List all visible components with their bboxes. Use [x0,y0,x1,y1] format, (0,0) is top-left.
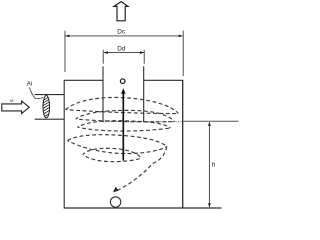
h bottom arrowhead [208,203,211,207]
vortex spiral loop 2 bottom arc [76,119,175,122]
vessel top edge right part [144,79,184,81]
Dd left extension line [102,50,104,64]
svg-text:h: h [212,162,216,169]
Dc right extension line [182,31,184,76]
Ai leader line [30,88,44,99]
svg-text:Dd: Dd [117,46,126,53]
vessel bottom edge with right extension [64,207,222,209]
Dc right arrowhead [179,35,183,38]
Dc left extension line [64,31,66,72]
svg-text:Ai: Ai [27,82,32,88]
inlet duct top wall [35,94,64,96]
vortex spiral loop 3 bottom arc [77,127,170,131]
vortex finder tube right wall [143,66,145,122]
spiral tail to outlet [118,147,167,191]
vortex spiral loop 5 bottom arc [83,155,141,162]
Dd right arrowhead [140,51,144,54]
vessel right wall [182,80,184,208]
top outlet block arrow [114,2,128,21]
tail arrowhead [113,187,119,193]
vortex spiral loop 5 top arc [83,148,141,158]
vessel left wall [63,80,65,208]
dotted level line across vessel [103,121,183,123]
svg-text:vi: vi [10,98,13,104]
Dd dimension line [104,52,144,54]
vortex spiral loop 4 bottom arc [68,141,167,154]
vi inlet block arrow [2,101,29,114]
vortex finder tube left wall [102,66,104,122]
Dc dimension line [65,35,182,37]
vortex spiral loop 1 top arc [66,97,179,113]
vortex spiral loop 3 top arc [77,121,170,128]
level extension line to h dimension [183,120,239,122]
bottom outlet circle [110,197,120,207]
svg-text:Dc: Dc [117,28,126,35]
h dimension line [208,123,210,207]
small circle above arrow [120,79,125,84]
vortex spiral loop 1 bottom arc [66,110,179,114]
Dc left arrowhead [65,35,69,38]
orifice hatched lens [43,96,50,118]
Dd left arrowhead [104,51,108,54]
central up arrow shaft [122,93,124,161]
vessel top edge left part [64,79,103,81]
central up arrowhead [121,88,126,94]
Dd right extension line [143,50,145,64]
vortex spiral loop 4 top arc [68,135,167,147]
h top arrowhead [208,122,211,126]
inlet duct bottom wall [35,118,64,120]
vortex spiral loop 2 top arc [76,110,175,121]
